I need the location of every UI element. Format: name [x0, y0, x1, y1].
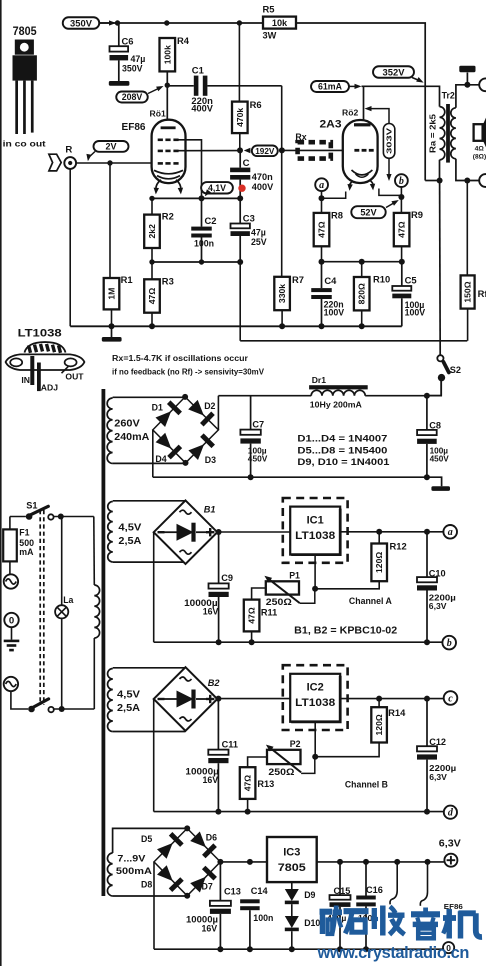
AC terminal N: [4, 677, 18, 691]
speaker 4R/8R: [473, 118, 486, 161]
svg-text:350V: 350V: [122, 64, 143, 74]
wire R1 drop: [109, 163, 111, 278]
wire heater feed 1: [390, 862, 397, 905]
capacitor C15 470u: [327, 862, 351, 949]
wire feedback line: [239, 262, 241, 341]
output terminal bottom: [479, 174, 486, 187]
svg-text:Channel B: Channel B: [345, 780, 388, 790]
2A3 anode: [354, 123, 371, 126]
svg-text:208V: 208V: [122, 92, 143, 102]
svg-text:OUT: OUT: [65, 372, 84, 382]
junction: [59, 706, 65, 712]
svg-text:2k2: 2k2: [147, 224, 157, 239]
wire EF86 cathode node: [152, 197, 240, 199]
terminal 0V: [443, 942, 454, 953]
svg-text:C7: C7: [252, 420, 264, 430]
capacitor C1 220n 400V: [169, 65, 282, 114]
svg-text:C16: C16: [366, 885, 383, 895]
transformer Tr2 primary (Ra=2k5): [440, 107, 445, 160]
svg-text:352V: 352V: [383, 66, 406, 77]
wire B+ down to S2: [439, 181, 442, 356]
transformer T1 winding 4.5V B: [108, 669, 113, 732]
voltage regulator 7805 package (TO-220): [3, 26, 46, 149]
svg-text:B1, B2 = KPBC10-02: B1, B2 = KPBC10-02: [294, 625, 397, 636]
svg-text:LT1038: LT1038: [18, 327, 62, 339]
svg-text:250Ω: 250Ω: [268, 767, 294, 777]
transformer Tr2 core: [446, 104, 450, 163]
svg-text:D5: D5: [141, 834, 152, 844]
svg-text:61mA: 61mA: [318, 82, 343, 92]
diode D10: [285, 916, 299, 949]
svg-text:4,5V: 4,5V: [117, 690, 141, 701]
svg-text:IC2: IC2: [307, 682, 324, 694]
wire g2 to 192V node: [179, 150, 240, 152]
wire bridge3 minus drop: [153, 862, 155, 949]
svg-text:C9: C9: [221, 573, 233, 583]
junction: [184, 893, 190, 899]
svg-text:16V: 16V: [203, 775, 219, 785]
wire PSU B+ rail: [218, 395, 311, 397]
capacitor C 470n 400V (g2 decoupling): [230, 150, 274, 198]
svg-text:16V: 16V: [203, 607, 219, 617]
svg-text:470n: 470n: [252, 172, 273, 182]
junction: [337, 859, 343, 865]
junction: [464, 82, 470, 88]
node 52V: [351, 200, 399, 218]
svg-text:LT1038: LT1038: [295, 530, 335, 542]
EF86 grid g2: [158, 150, 179, 153]
choke Dr1 10Hy: [309, 385, 368, 396]
svg-text:10k: 10k: [272, 18, 288, 28]
svg-text:Rx=1.5-4.7K if oscillations oc: Rx=1.5-4.7K if oscillations occur: [112, 353, 249, 363]
wire bridge plus riser: [217, 396, 219, 430]
svg-text:7805: 7805: [13, 26, 38, 38]
wire B1 plus to IC1: [217, 531, 290, 533]
wire B2 plus to IC2: [217, 698, 290, 700]
junction: [359, 323, 365, 329]
junction: [312, 754, 318, 760]
capacitor C13 10000u 16V: [186, 862, 241, 949]
wire Tr2 secondary top: [456, 85, 480, 108]
resistor R8 47R: [314, 213, 330, 246]
svg-text:D1...D4 = 1N4007: D1...D4 = 1N4007: [297, 434, 387, 444]
ground: [4, 627, 20, 651]
wire filament return: [322, 261, 402, 263]
svg-text:Channel A: Channel A: [349, 596, 392, 606]
svg-text:b: b: [399, 176, 404, 187]
wire a to R8: [321, 191, 323, 213]
wire heater feed 2: [420, 862, 427, 906]
svg-text:Rf: Rf: [478, 288, 486, 299]
svg-text:350V: 350V: [70, 17, 93, 28]
svg-text:R5: R5: [263, 4, 275, 15]
terminal c: [444, 691, 458, 705]
EF86 grid g3: [158, 139, 179, 142]
svg-text:R11: R11: [261, 608, 277, 618]
wire rail b: [154, 641, 443, 643]
switch S1 pole 2: [11, 691, 94, 712]
svg-text:C11: C11: [222, 739, 238, 749]
node 2V: [86, 141, 128, 161]
svg-text:b: b: [447, 638, 452, 649]
junction: [217, 859, 223, 865]
2A3 filament arrows: [347, 181, 375, 191]
junction: [247, 859, 253, 865]
wire cathode network lower: [152, 261, 240, 263]
svg-text:C15: C15: [334, 886, 351, 896]
svg-text:LT1038: LT1038: [295, 697, 335, 709]
svg-text:D5...D8 = 1N5400: D5...D8 = 1N5400: [297, 445, 387, 455]
tube U1 EF86 envelope: [152, 120, 186, 183]
terminal a: [443, 525, 457, 539]
svg-text:6,3V: 6,3V: [429, 772, 447, 782]
wire B2 minus drop: [153, 699, 155, 812]
ground: [431, 486, 450, 491]
note Rx / feedback text: [112, 353, 264, 377]
junction: [424, 474, 430, 480]
svg-text:47Ω: 47Ω: [397, 221, 407, 238]
junction: [237, 195, 243, 201]
svg-text:R1: R1: [121, 274, 133, 285]
svg-text:7805: 7805: [278, 862, 306, 874]
junction B+ to PSU: [437, 178, 443, 184]
svg-text:3W: 3W: [263, 31, 277, 41]
resistor Rf 150R: [461, 275, 475, 308]
S1 linkage (dashed): [40, 510, 44, 705]
diode D9: [285, 882, 299, 916]
resistor R12 120R: [371, 544, 387, 582]
svg-text:100V: 100V: [405, 308, 426, 318]
svg-text:47Ω: 47Ω: [317, 221, 327, 238]
junction: [424, 529, 430, 535]
potentiometer P1 250R: [252, 576, 315, 604]
transformer T1 winding 7-9V: [107, 853, 112, 896]
EF86 anode: [161, 126, 176, 129]
svg-text:R4: R4: [177, 35, 190, 46]
junction: [245, 809, 251, 815]
svg-text:C3: C3: [243, 213, 255, 224]
junction: [237, 259, 243, 265]
svg-text:D9, D10 = 1N4001: D9, D10 = 1N4001: [297, 457, 389, 467]
junction: [247, 946, 253, 952]
svg-text:450V: 450V: [248, 454, 268, 464]
terminal b (filament): [395, 174, 408, 187]
svg-text:R3: R3: [162, 276, 174, 287]
svg-text:Ra = 2k5: Ra = 2k5: [427, 114, 437, 153]
wire IC1 adj: [314, 555, 316, 589]
wire anode stub: [363, 86, 365, 123]
junction: [149, 323, 155, 329]
label 4,5V 2,5A (B): [117, 690, 141, 715]
junction: [237, 20, 242, 25]
svg-text:R14: R14: [388, 707, 406, 718]
svg-text:120Ω: 120Ω: [374, 552, 384, 573]
svg-text:2,5A: 2,5A: [118, 536, 141, 547]
wire bridge minus drop: [152, 430, 154, 477]
label 260V 240mA: [114, 419, 149, 444]
input arrow symbol: [49, 154, 61, 171]
svg-text:C12: C12: [429, 737, 446, 747]
svg-text:7...9V: 7...9V: [117, 854, 146, 865]
svg-text:R2: R2: [162, 211, 174, 222]
svg-text:25V: 25V: [251, 237, 267, 247]
junction: [464, 178, 470, 184]
svg-text:C10: C10: [429, 568, 446, 578]
svg-text:400V: 400V: [252, 182, 274, 192]
transformer Tr2 secondary: [451, 108, 456, 159]
junction: [183, 460, 189, 466]
svg-text:Rö1: Rö1: [150, 109, 166, 119]
junction: [319, 323, 325, 329]
svg-text:820Ω: 820Ω: [357, 283, 367, 304]
svg-text:P1: P1: [289, 570, 300, 580]
junction: [199, 195, 205, 201]
node 303V pointer: [365, 106, 395, 181]
svg-text:D2: D2: [204, 401, 215, 411]
resistor R6 470k: [238, 23, 240, 102]
junction: [376, 529, 382, 535]
junction grid node: [279, 147, 285, 153]
junction: [249, 639, 255, 645]
junction: [399, 259, 405, 265]
svg-text:R9: R9: [411, 209, 423, 220]
svg-text:R7: R7: [292, 274, 304, 285]
svg-text:500mA: 500mA: [116, 866, 152, 877]
resistor R3 47Ω: [144, 279, 160, 312]
svg-text:Rö2: Rö2: [342, 107, 358, 117]
svg-text:260V: 260V: [114, 419, 140, 430]
rectifier bridge D1-D4: [153, 397, 219, 463]
wire B+ rail top: [99, 22, 263, 24]
svg-text:C: C: [243, 158, 250, 169]
svg-text:D8: D8: [141, 879, 152, 889]
resistor R13 47R: [240, 767, 256, 799]
wire coupling to 2A3 grid: [281, 86, 283, 277]
junction: [109, 323, 115, 329]
svg-text:a: a: [448, 527, 453, 538]
output terminal top: [479, 78, 486, 91]
regulator IC1 LT1038: [283, 498, 348, 563]
junction: [363, 946, 369, 952]
resistor R2 2k2: [144, 215, 160, 248]
junction: [424, 696, 430, 702]
svg-text:La: La: [63, 595, 73, 605]
svg-text:C6: C6: [122, 36, 134, 47]
svg-text:B2: B2: [208, 678, 221, 688]
wire R4 to anode: [166, 71, 168, 126]
svg-text:B1: B1: [204, 505, 216, 515]
wire bridge3 plus to IC3: [220, 861, 267, 863]
svg-text:47Ω: 47Ω: [247, 607, 257, 624]
svg-text:16V: 16V: [202, 924, 218, 934]
svg-text:IN: IN: [21, 375, 30, 385]
junction: [376, 696, 382, 702]
chassis ground: [459, 66, 475, 85]
svg-text:6,3V: 6,3V: [429, 601, 447, 611]
2A3 filament: [352, 170, 373, 175]
junction: [149, 196, 154, 201]
svg-text:P2: P2: [290, 739, 301, 749]
node 352V: [373, 66, 424, 82]
tube U2 2A3 envelope: [343, 120, 378, 183]
resistor R3 47R: [151, 262, 153, 279]
transformer T1 winding 4.5V A: [108, 502, 113, 563]
svg-text:47Ω: 47Ω: [243, 775, 253, 792]
svg-text:100V: 100V: [324, 307, 345, 317]
resistor R4 100k: [160, 38, 176, 71]
svg-text:IC3: IC3: [283, 847, 300, 859]
svg-text:2V: 2V: [105, 142, 116, 152]
junction: [363, 859, 369, 865]
svg-text:47µ: 47µ: [251, 228, 266, 238]
junction: [107, 160, 112, 165]
resistor R5 10k 3W: [263, 4, 297, 41]
capacitor C11 10000u 16V: [185, 699, 238, 812]
regulator IC2 LT1038: [283, 665, 348, 730]
capacitor C8 100u 450V: [417, 396, 449, 478]
rectifier bridge D5-D8: [154, 828, 220, 895]
input jack: [64, 157, 76, 169]
svg-text:2A3: 2A3: [320, 119, 342, 131]
capacitor C4 220n 100V: [311, 262, 344, 327]
svg-text:R10: R10: [373, 274, 390, 285]
svg-text:R12: R12: [390, 541, 407, 552]
resistor R10 820R: [361, 262, 363, 277]
wire Tr2 primary bottom: [439, 160, 441, 181]
svg-text:470k: 470k: [235, 108, 245, 127]
wire IC1 out: [340, 531, 443, 533]
svg-text:10Hy 200mA: 10Hy 200mA: [310, 401, 362, 410]
svg-text:D6: D6: [206, 833, 217, 843]
svg-text:D7: D7: [202, 881, 213, 891]
junction: [184, 825, 190, 831]
junction: [216, 529, 222, 535]
svg-text:C2: C2: [205, 215, 217, 226]
transformer T1 core: [102, 389, 106, 896]
fuse F1 500mA: [3, 517, 34, 575]
junction: [215, 809, 221, 815]
switch S2: [427, 355, 449, 395]
capacitor C6 47u 350V: [109, 23, 146, 86]
label 4,5V 2,5A (A): [118, 523, 142, 548]
svg-text:F1: F1: [19, 528, 29, 538]
junction: [425, 859, 431, 865]
capacitor C7 100u 450V: [240, 396, 267, 478]
bridge rectifier B1: [154, 500, 218, 564]
potentiometer P2 250R: [248, 745, 315, 774]
regulator LT1038 package (TO-3): [6, 327, 85, 392]
junction: [424, 639, 430, 645]
wire b to R9: [400, 187, 402, 213]
svg-text:if no feedback (no Rf) -> sens: if no feedback (no Rf) -> sensivity=30mV: [112, 367, 264, 377]
junction: [337, 946, 343, 952]
svg-text:D1: D1: [152, 403, 163, 413]
junction: [216, 639, 222, 645]
svg-text:C5: C5: [405, 275, 417, 286]
switch S1 pole 1: [10, 506, 94, 520]
transformer T1 winding 260V: [107, 398, 112, 463]
resistor R14 120R: [378, 699, 380, 708]
svg-text:Rx: Rx: [295, 132, 306, 142]
wire IC3 out: [317, 861, 445, 863]
svg-text:c: c: [448, 693, 453, 704]
svg-text:4Ω: 4Ω: [475, 146, 485, 153]
terminal a (filament): [315, 178, 328, 191]
capacitor C16 100n: [356, 862, 383, 949]
junction: [149, 259, 154, 264]
resistor R12 120R: [378, 532, 380, 544]
svg-text:ADJ: ADJ: [41, 383, 58, 393]
wire IC2 out: [340, 698, 443, 700]
wire B1 minus drop: [153, 532, 155, 642]
node 61mA: [311, 81, 362, 92]
junction: [359, 259, 365, 265]
capacitor C2 100n: [191, 198, 216, 262]
label 7...9V 500mA: [116, 854, 152, 878]
junction: [58, 514, 64, 520]
svg-text:4,1V: 4,1V: [208, 183, 226, 193]
svg-text:330k: 330k: [277, 284, 287, 303]
junction: [115, 20, 120, 25]
svg-text:in co out: in co out: [3, 139, 46, 149]
svg-text:EF86: EF86: [122, 121, 146, 133]
svg-text:C8: C8: [429, 421, 441, 431]
svg-text:400V: 400V: [191, 104, 213, 114]
wire filament hook b: [379, 189, 402, 196]
capacitor C10 2200u 6,3V: [417, 532, 456, 642]
junction: [398, 194, 404, 200]
junction 192V node: [237, 147, 243, 153]
capacitor C12 2200u 6,3V: [417, 699, 456, 812]
junction: [199, 259, 204, 264]
svg-text:192V: 192V: [255, 147, 275, 156]
EF86 cathode: [154, 170, 183, 174]
junction: [217, 946, 223, 952]
resistor R14 120R: [371, 707, 387, 742]
svg-text:100n: 100n: [194, 239, 214, 249]
svg-text:C4: C4: [324, 275, 337, 286]
resistor R10 820R: [354, 277, 370, 310]
wire jack to ground bus: [69, 169, 71, 326]
wire g3 tie: [179, 140, 202, 199]
transformer T1 primary: [94, 517, 100, 710]
junction: [248, 474, 254, 480]
svg-text:C1: C1: [192, 65, 204, 76]
node 4,1V: [201, 182, 233, 196]
svg-text:D10: D10: [304, 918, 320, 928]
svg-text:D4: D4: [155, 454, 166, 464]
lamp La: [55, 517, 68, 710]
svg-text:D9: D9: [304, 890, 315, 900]
AC terminal L: [4, 574, 18, 588]
svg-text:a: a: [319, 180, 324, 191]
terminal d: [444, 806, 457, 819]
terminal b: [442, 636, 456, 650]
junction: [319, 195, 325, 201]
junction: [215, 696, 221, 702]
note diode types: [297, 434, 389, 468]
svg-text:240mA: 240mA: [114, 432, 149, 443]
resistor R7 330k: [274, 277, 290, 310]
svg-text:4,5V: 4,5V: [118, 523, 142, 534]
svg-text:2,5A: 2,5A: [117, 703, 140, 714]
svg-text:www.crystalradio.cn: www.crystalradio.cn: [317, 943, 469, 962]
regulator IC3 7805: [267, 837, 317, 882]
node 350V: [63, 17, 116, 29]
bridge rectifier B2: [154, 667, 218, 731]
svg-text:mA: mA: [19, 547, 34, 557]
svg-text:52V: 52V: [360, 208, 377, 218]
